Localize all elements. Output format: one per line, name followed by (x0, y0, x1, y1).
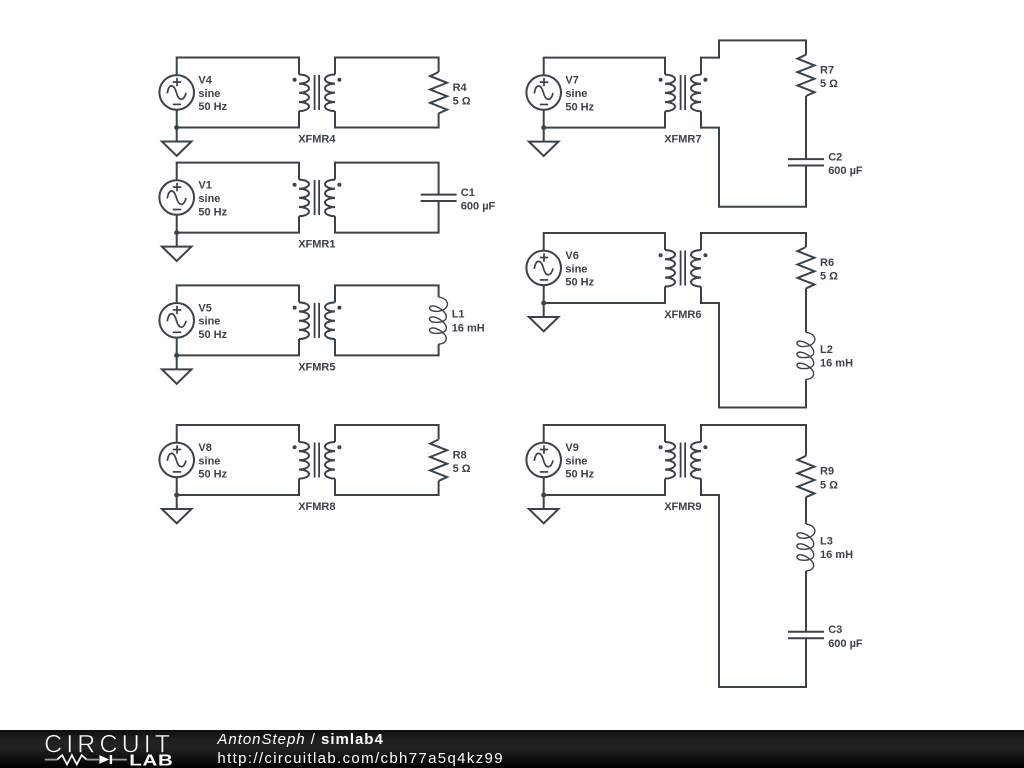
wire secondary top (335, 163, 439, 195)
svg-text:V1: V1 (198, 180, 211, 192)
transformer XFMR1 primary winding (299, 180, 309, 217)
wire (805, 288, 807, 332)
inductor L1 (430, 297, 448, 344)
transformer XFMR9 primary winding (665, 442, 675, 479)
svg-text:16 mH: 16 mH (820, 549, 853, 561)
ground (162, 353, 192, 384)
transformer XFMR4 core (315, 75, 320, 110)
svg-text:XFMR5: XFMR5 (298, 361, 335, 373)
voltage source V9 (526, 443, 561, 478)
transformer XFMR8 secondary polarity dot (337, 445, 341, 449)
svg-text:50 Hz: 50 Hz (565, 277, 594, 289)
svg-text:16 mH: 16 mH (820, 358, 853, 370)
transformer XFMR7 secondary winding (691, 75, 701, 112)
wire secondary top (335, 58, 439, 75)
wire secondary bottom (335, 111, 439, 127)
resistor R4 (430, 72, 447, 113)
wire primary bottom (177, 477, 299, 495)
transformer XFMR4 secondary polarity dot (337, 78, 341, 82)
wire secondary bottom (335, 201, 439, 233)
svg-text:50 Hz: 50 Hz (565, 101, 594, 113)
transformer XFMR5 primary winding (299, 302, 309, 339)
svg-text:L1: L1 (452, 309, 465, 321)
svg-text:sine: sine (198, 88, 220, 100)
svg-text:LAB: LAB (129, 752, 173, 768)
transformer XFMR8 secondary winding (325, 442, 335, 479)
wire secondary top (335, 285, 439, 302)
svg-text:600 µF: 600 µF (828, 165, 863, 177)
wire primary top (177, 58, 299, 76)
transformer XFMR9 secondary polarity dot (703, 445, 707, 449)
wire primary bottom (177, 338, 299, 356)
wire primary bottom (177, 215, 299, 233)
svg-text:R8: R8 (453, 449, 467, 461)
transformer XFMR5 secondary polarity dot (337, 306, 341, 310)
svg-text:50 Hz: 50 Hz (198, 469, 227, 481)
svg-text:AntonSteph / simlab4: AntonSteph / simlab4 (216, 731, 383, 748)
wire secondary top (701, 425, 806, 456)
svg-text:sine: sine (565, 88, 587, 100)
inductor L2 (797, 332, 815, 379)
ground (162, 493, 192, 524)
svg-text:XFMR8: XFMR8 (298, 501, 335, 513)
svg-text:5 Ω: 5 Ω (820, 271, 838, 283)
wire primary bottom (177, 110, 299, 128)
svg-text:sine: sine (565, 455, 587, 467)
svg-text:600 µF: 600 µF (461, 201, 496, 213)
wire primary top (177, 163, 299, 181)
wire secondary bottom (701, 287, 806, 408)
svg-text:XFMR9: XFMR9 (664, 501, 701, 513)
wire (805, 497, 807, 524)
transformer XFMR4 secondary winding (325, 75, 335, 112)
transformer XFMR6 secondary polarity dot (703, 253, 707, 257)
resistor R6 (798, 247, 815, 288)
svg-text:50 Hz: 50 Hz (198, 101, 227, 113)
transformer XFMR5 core (315, 303, 320, 338)
voltage source V1 (159, 180, 194, 215)
voltage source V5 (159, 303, 194, 338)
svg-text:5 Ω: 5 Ω (453, 463, 471, 475)
svg-text:http://circuitlab.com/cbh77a5q: http://circuitlab.com/cbh77a5q4kz99 (217, 750, 504, 767)
resistor R8 (430, 440, 447, 481)
svg-text:5 Ω: 5 Ω (453, 96, 471, 108)
wire (805, 96, 807, 159)
transformer XFMR7 primary polarity dot (659, 78, 663, 82)
transformer XFMR5 primary polarity dot (293, 306, 297, 310)
voltage source V8 (159, 443, 194, 478)
transformer XFMR1 secondary polarity dot (337, 183, 341, 187)
transformer XFMR6 primary polarity dot (659, 253, 663, 257)
svg-text:50 Hz: 50 Hz (198, 329, 227, 341)
transformer XFMR8 primary polarity dot (293, 445, 297, 449)
wire secondary bottom (701, 479, 806, 687)
svg-text:50 Hz: 50 Hz (198, 206, 227, 218)
svg-text:V6: V6 (565, 250, 578, 262)
wire (805, 571, 807, 632)
transformer XFMR8 primary winding (299, 442, 309, 479)
wire secondary bottom (335, 479, 439, 495)
svg-text:R9: R9 (820, 466, 834, 478)
wire primary top (177, 425, 299, 443)
wire secondary bottom (335, 339, 439, 355)
transformer XFMR6 primary winding (665, 250, 675, 287)
inductor L3 (797, 524, 815, 571)
transformer XFMR9 core (681, 443, 686, 478)
transformer XFMR9 primary polarity dot (659, 445, 663, 449)
svg-text:C1: C1 (461, 187, 475, 199)
svg-text:5 Ω: 5 Ω (820, 479, 838, 491)
wire primary bottom (544, 285, 665, 303)
svg-text:XFMR4: XFMR4 (298, 134, 336, 146)
voltage source V4 (159, 75, 194, 110)
transformer XFMR1 secondary winding (325, 180, 335, 217)
capacitor C3 (788, 632, 824, 638)
svg-text:XFMR6: XFMR6 (664, 309, 701, 321)
wire primary top (544, 58, 665, 76)
svg-text:V5: V5 (198, 302, 211, 314)
svg-text:sine: sine (565, 263, 587, 275)
transformer XFMR5 secondary winding (325, 302, 335, 339)
wire primary top (544, 233, 665, 251)
transformer XFMR9 secondary winding (691, 442, 701, 479)
resistor R9 (798, 456, 815, 497)
svg-text:R4: R4 (453, 82, 468, 94)
transformer XFMR8 core (315, 443, 320, 478)
ground (529, 125, 559, 156)
ground (162, 230, 192, 261)
svg-text:C3: C3 (828, 624, 842, 636)
transformer XFMR4 primary polarity dot (293, 78, 297, 82)
capacitor C1 (421, 195, 457, 201)
wire secondary top (335, 425, 439, 442)
svg-text:600 µF: 600 µF (828, 638, 863, 650)
svg-text:XFMR1: XFMR1 (298, 239, 335, 251)
wire primary bottom (544, 477, 665, 495)
svg-text:XFMR7: XFMR7 (664, 134, 701, 146)
svg-text:sine: sine (198, 455, 220, 467)
svg-text:C2: C2 (828, 152, 842, 164)
transformer XFMR7 primary winding (665, 75, 675, 112)
resistor R7 (798, 55, 815, 96)
wire primary top (177, 285, 299, 303)
transformer XFMR1 core (315, 180, 320, 215)
svg-text:V8: V8 (198, 442, 211, 454)
transformer XFMR7 core (681, 75, 686, 110)
svg-text:5 Ω: 5 Ω (820, 78, 838, 90)
ground (529, 493, 559, 524)
voltage source V6 (526, 251, 561, 286)
wire primary top (544, 425, 665, 443)
wire secondary top (701, 40, 806, 74)
svg-text:16 mH: 16 mH (452, 322, 485, 334)
svg-text:50 Hz: 50 Hz (565, 469, 594, 481)
svg-text:sine: sine (198, 316, 220, 328)
transformer XFMR4 primary winding (299, 75, 309, 112)
svg-text:R6: R6 (820, 257, 834, 269)
logo diode (99, 755, 109, 764)
capacitor C2 (788, 159, 824, 165)
transformer XFMR6 secondary winding (691, 250, 701, 287)
svg-text:V4: V4 (198, 74, 212, 86)
logo resistor (45, 759, 57, 761)
svg-text:R7: R7 (820, 65, 834, 77)
ground (529, 301, 559, 332)
svg-text:sine: sine (198, 193, 220, 205)
wire secondary bottom (701, 111, 806, 207)
ground (162, 125, 192, 156)
transformer XFMR6 core (681, 251, 686, 286)
svg-text:L3: L3 (820, 536, 833, 548)
svg-text:V7: V7 (565, 75, 578, 87)
svg-text:L2: L2 (820, 344, 833, 356)
wire secondary top (701, 233, 806, 250)
wire primary bottom (544, 110, 665, 128)
transformer XFMR1 primary polarity dot (293, 183, 297, 187)
transformer XFMR7 secondary polarity dot (703, 78, 707, 82)
svg-text:V9: V9 (565, 442, 578, 454)
voltage source V7 (526, 75, 561, 110)
